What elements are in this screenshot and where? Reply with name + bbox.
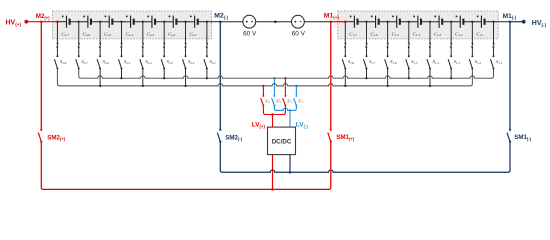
- svg-text:DC/DC: DC/DC: [272, 138, 292, 145]
- svg-text:60 V: 60 V: [292, 30, 306, 37]
- svg-text:S′1: S′1: [298, 98, 303, 104]
- svg-text:S′1: S′1: [287, 98, 292, 104]
- svg-text:S′2: S′2: [265, 98, 270, 104]
- svg-text:S′2: S′2: [276, 98, 281, 104]
- svg-text:60 V: 60 V: [243, 30, 257, 37]
